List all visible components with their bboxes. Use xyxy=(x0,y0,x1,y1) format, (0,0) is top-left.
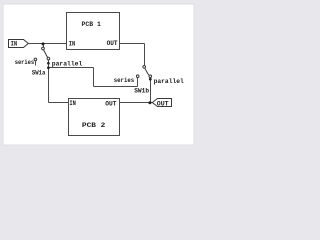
junction dot on OUT wire xyxy=(148,101,151,104)
switch SW1a series throw stub xyxy=(35,61,37,66)
wire PCB2 OUT to OUT flag xyxy=(120,102,153,104)
svg-text:PCB 2: PCB 2 xyxy=(82,122,106,130)
switch SW1b series throw stub xyxy=(137,78,139,87)
switch SW1b blade xyxy=(145,68,149,75)
wire corner to PCB2 IN xyxy=(49,102,69,104)
svg-text:PCB 1: PCB 1 xyxy=(82,21,101,29)
switch SW1a common contact circle xyxy=(42,47,45,50)
canvas background xyxy=(0,0,202,150)
svg-text:OUT: OUT xyxy=(107,40,118,48)
switch SW1a series throw contact circle xyxy=(34,58,37,61)
wire branch right from junction xyxy=(49,67,94,69)
junction dot below SW1a parallel throw xyxy=(47,62,50,65)
junction dot below SW1b parallel throw xyxy=(149,78,152,81)
PCB 1 box U1 xyxy=(67,13,120,50)
switch SW1a blade xyxy=(44,50,48,58)
wire PCB1 OUT to corner xyxy=(120,43,145,45)
svg-text:SW1b: SW1b xyxy=(134,87,149,95)
wire down at mid column xyxy=(93,68,95,87)
junction dot at branch point xyxy=(47,66,50,69)
wire corner down to SW1b common xyxy=(144,44,146,66)
wire SW1b parallel throw down to OUT wire xyxy=(150,78,152,103)
svg-text:IN: IN xyxy=(11,41,18,49)
svg-text:parallel: parallel xyxy=(154,78,184,86)
switch SW1a common stub xyxy=(43,44,45,48)
OUT flag outline xyxy=(152,99,171,107)
svg-text:series: series xyxy=(114,77,134,85)
junction dot on IN wire xyxy=(42,42,45,45)
svg-text:IN: IN xyxy=(69,100,76,108)
svg-text:SW1a: SW1a xyxy=(32,70,46,78)
switch SW1b parallel throw contact circle xyxy=(149,75,152,78)
wire IN flag to PCB1 IN xyxy=(28,43,67,45)
switch SW1a parallel throw contact circle xyxy=(47,57,50,60)
svg-text:series: series xyxy=(15,59,35,67)
IN flag outline xyxy=(9,40,29,48)
PCB 2 box U2 xyxy=(69,99,120,136)
svg-text:IN: IN xyxy=(69,40,76,48)
wire right to SW1b series throw xyxy=(94,86,138,88)
switch SW1b common contact circle xyxy=(143,65,146,68)
svg-text:OUT: OUT xyxy=(157,100,169,108)
wire SW1a parallel throw down xyxy=(48,60,50,103)
switch SW1b series throw contact circle xyxy=(136,75,139,78)
svg-text:OUT: OUT xyxy=(105,101,116,109)
svg-text:parallel: parallel xyxy=(52,60,83,68)
